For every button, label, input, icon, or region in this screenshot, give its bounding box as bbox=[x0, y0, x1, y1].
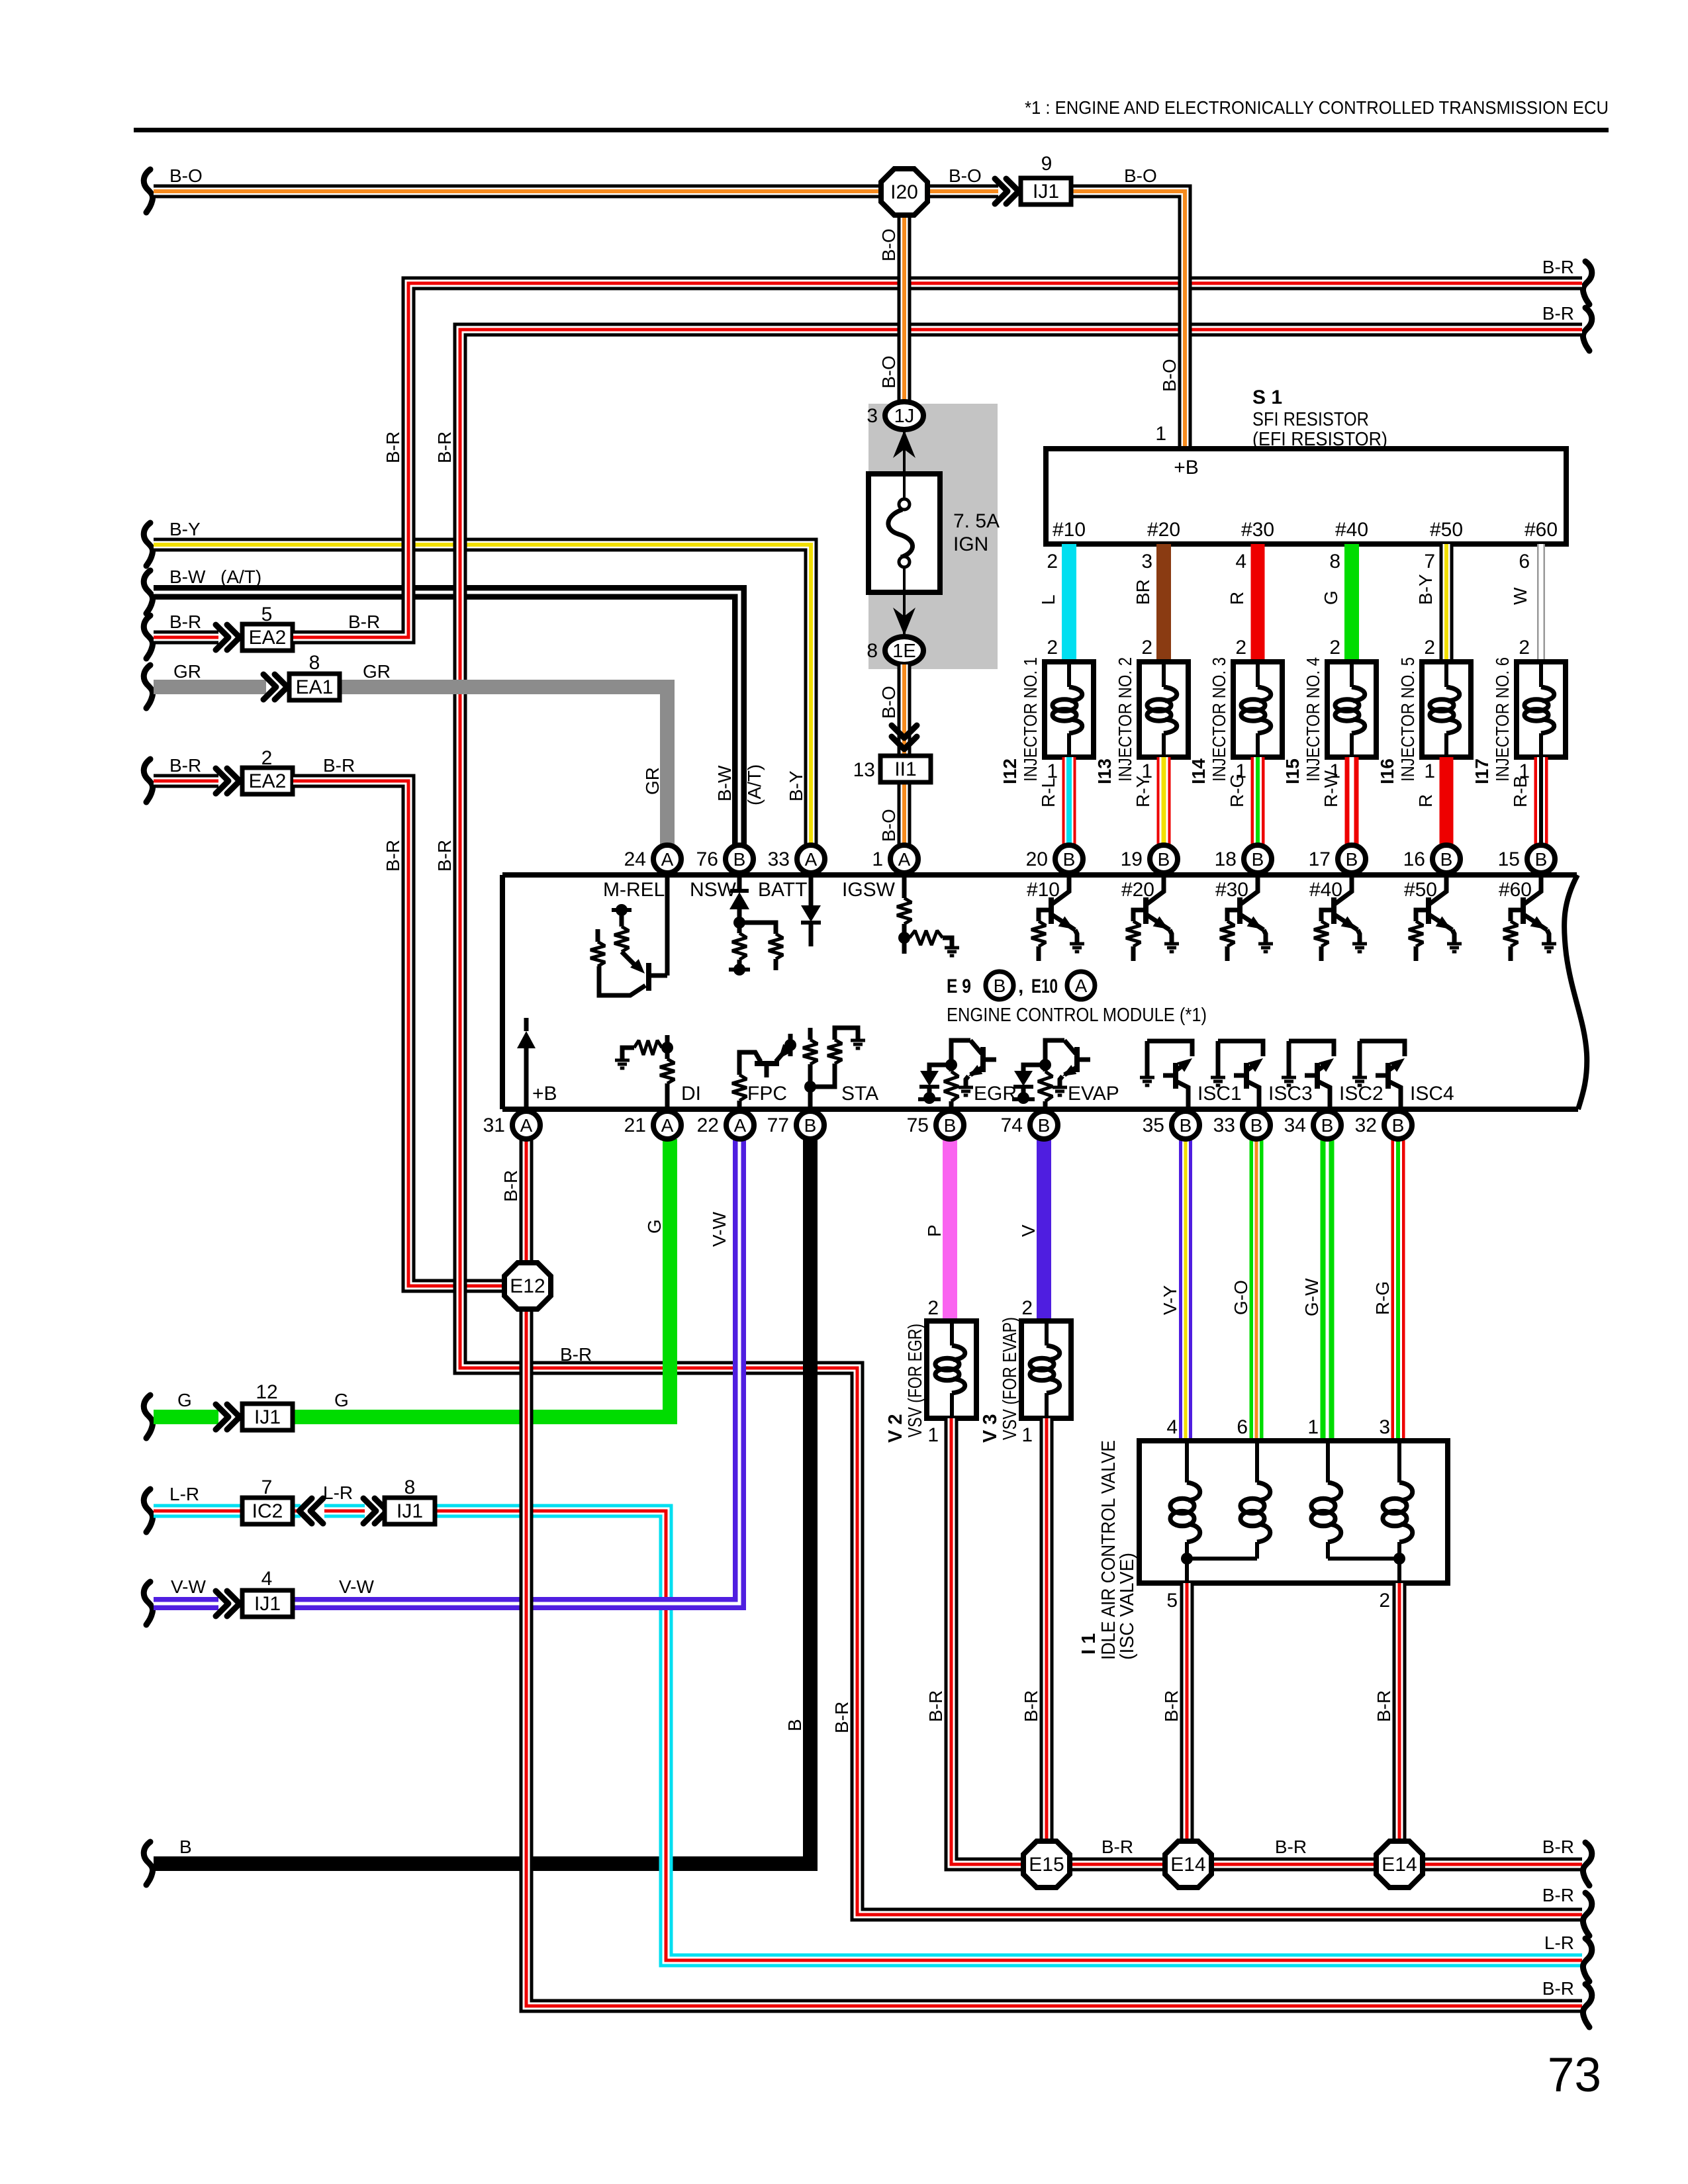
svg-text:73: 73 bbox=[1548, 2048, 1601, 2102]
injector I14 INJECTOR NO. 3 bbox=[1233, 662, 1282, 757]
svg-text:#30: #30 bbox=[1215, 879, 1248, 901]
svg-text:B: B bbox=[994, 976, 1006, 996]
svg-text:B-R: B-R bbox=[560, 1344, 592, 1365]
svg-text:*1 : ENGINE AND ELECTRONICALL: *1 : ENGINE AND ELECTRONICALLY CONTROLLE… bbox=[1025, 97, 1609, 118]
svg-text:33: 33 bbox=[1213, 1115, 1235, 1136]
svg-text:B: B bbox=[1440, 849, 1453, 870]
svg-text:R-B: R-B bbox=[1510, 776, 1530, 807]
wire B-Y from resistor #50 to injector no.5 bbox=[1440, 544, 1454, 664]
ECM pin 33 (A) top row bbox=[797, 845, 825, 873]
ECM pin 21 (A) bottom row bbox=[653, 1111, 681, 1139]
svg-text:B-R: B-R bbox=[831, 1702, 852, 1733]
wire B-O from left to I20 bbox=[144, 169, 152, 212]
svg-text:A: A bbox=[898, 849, 911, 870]
svg-text:B-O: B-O bbox=[878, 228, 899, 261]
svg-text:IJ1: IJ1 bbox=[1033, 181, 1059, 203]
svg-text:EA2: EA2 bbox=[249, 627, 287, 649]
ECM pin 15 (B) top row bbox=[1527, 845, 1555, 873]
svg-text:B-R: B-R bbox=[383, 840, 403, 872]
svg-text:V-W: V-W bbox=[171, 1576, 206, 1597]
svg-text:L-R: L-R bbox=[323, 1482, 353, 1503]
connector EA2 bbox=[242, 624, 293, 651]
svg-text:4: 4 bbox=[1235, 551, 1246, 572]
svg-text:B-R: B-R bbox=[1161, 1690, 1182, 1722]
ECM pin 24 (A) top row bbox=[653, 845, 681, 873]
svg-text:I16: I16 bbox=[1377, 758, 1397, 784]
connector EA1 bbox=[289, 674, 340, 700]
svg-text:#50: #50 bbox=[1404, 879, 1437, 901]
svg-text:BATT: BATT bbox=[758, 879, 807, 901]
svg-text:INJECTOR NO. 5: INJECTOR NO. 5 bbox=[1397, 657, 1418, 782]
svg-text:17: 17 bbox=[1309, 848, 1331, 870]
wire B-R E14 to right bbox=[1399, 1858, 1582, 1872]
svg-text:R-G: R-G bbox=[1227, 774, 1247, 807]
svg-text:2: 2 bbox=[1021, 1297, 1033, 1319]
svg-text:2: 2 bbox=[1047, 637, 1058, 659]
svg-text:B-O: B-O bbox=[1124, 165, 1157, 186]
svg-text:1: 1 bbox=[1424, 760, 1435, 782]
svg-text:7: 7 bbox=[261, 1477, 273, 1498]
svg-text:EA2: EA2 bbox=[249, 770, 287, 792]
svg-text:19: 19 bbox=[1121, 848, 1143, 870]
svg-text:20: 20 bbox=[1026, 848, 1048, 870]
connector IJ1 pin 4 bbox=[242, 1590, 293, 1617]
svg-text:A: A bbox=[734, 1115, 747, 1136]
connector IJ1 pin 12 bbox=[242, 1404, 293, 1430]
svg-text:#50: #50 bbox=[1430, 519, 1463, 541]
svg-text:B-R: B-R bbox=[169, 612, 201, 632]
svg-text:76: 76 bbox=[696, 848, 718, 870]
svg-text:7: 7 bbox=[1424, 551, 1435, 572]
svg-text:35: 35 bbox=[1143, 1115, 1164, 1136]
svg-text:B-W: B-W bbox=[714, 765, 735, 801]
injector I16 INJECTOR NO. 5 bbox=[1422, 662, 1471, 757]
svg-text:R-Y: R-Y bbox=[1133, 775, 1153, 807]
wire R-L injector 1 to ECM bbox=[1062, 757, 1076, 847]
wire G-O pin 33 to ISC bbox=[1250, 1139, 1264, 1443]
svg-text:I17: I17 bbox=[1472, 758, 1492, 784]
svg-text:#30: #30 bbox=[1241, 519, 1274, 541]
connector EA2 (2) bbox=[242, 768, 293, 794]
ground bbox=[959, 1086, 973, 1089]
svg-text:B-R: B-R bbox=[1542, 1978, 1574, 1999]
ECM pin 17 (B) top row bbox=[1338, 845, 1366, 873]
wire V-Y pin 35 to ISC bbox=[1179, 1139, 1192, 1443]
svg-text:G-W: G-W bbox=[1301, 1278, 1322, 1316]
svg-text:15: 15 bbox=[1498, 848, 1520, 870]
svg-text:,: , bbox=[1018, 976, 1023, 997]
I1 idle air control valve box bbox=[1139, 1441, 1448, 1583]
svg-text:W: W bbox=[1510, 587, 1530, 605]
ground bbox=[1352, 1076, 1367, 1079]
svg-text:B-O: B-O bbox=[878, 355, 899, 388]
svg-text:B-R: B-R bbox=[925, 1690, 946, 1722]
connector E12 bbox=[504, 1263, 551, 1309]
svg-text:B: B bbox=[784, 1719, 805, 1731]
svg-text:1: 1 bbox=[927, 1424, 939, 1446]
svg-text:V-Y: V-Y bbox=[1160, 1285, 1180, 1315]
svg-text:(A/T): (A/T) bbox=[220, 567, 261, 587]
ISC3 driver bbox=[1218, 1041, 1263, 1056]
svg-text:B: B bbox=[1535, 849, 1548, 870]
svg-text:B-R: B-R bbox=[1021, 1690, 1041, 1722]
svg-text:I15: I15 bbox=[1282, 758, 1303, 784]
svg-text:B: B bbox=[1392, 1115, 1405, 1136]
svg-text:B: B bbox=[804, 1115, 817, 1136]
svg-text:E14: E14 bbox=[1170, 1854, 1205, 1876]
wire V-W row bbox=[144, 1582, 152, 1625]
svg-text:B-R: B-R bbox=[1542, 1885, 1574, 1905]
svg-text:II1: II1 bbox=[894, 758, 916, 780]
svg-text:33: 33 bbox=[768, 848, 790, 870]
wire B-R to EA2 (pin 2) row y=1180 bbox=[144, 759, 152, 802]
wire B-R ISC pin5 to E14 bbox=[1180, 1583, 1194, 1840]
svg-text:G: G bbox=[644, 1219, 665, 1234]
svg-text:#60: #60 bbox=[1499, 879, 1532, 901]
svg-text:B: B bbox=[1180, 1115, 1192, 1136]
svg-text:INJECTOR NO. 2: INJECTOR NO. 2 bbox=[1115, 657, 1135, 782]
injector I17 INJECTOR NO. 6 bbox=[1517, 662, 1566, 757]
svg-text:3: 3 bbox=[1379, 1416, 1390, 1438]
connector 1E pin 8 bbox=[885, 637, 923, 664]
svg-text:2: 2 bbox=[927, 1297, 939, 1319]
svg-text:IGSW: IGSW bbox=[842, 879, 896, 901]
svg-text:R-L: R-L bbox=[1038, 778, 1058, 807]
wire B black from pin 77 down-left to brace bbox=[144, 1842, 152, 1885]
ISC1 driver bbox=[1147, 1041, 1192, 1056]
svg-text:B-Y: B-Y bbox=[786, 770, 806, 801]
svg-text:6: 6 bbox=[1519, 551, 1530, 572]
chevron junction bbox=[995, 179, 1008, 204]
svg-text:V-W: V-W bbox=[709, 1212, 729, 1247]
wire L from resistor #10 to injector no.1 bbox=[1062, 544, 1076, 664]
connector I20 bbox=[881, 169, 927, 215]
wire B-R VSV EGR to E15 row bbox=[951, 1418, 1023, 1864]
ISC valve coil 1 bbox=[1185, 1443, 1189, 1482]
svg-text:E12: E12 bbox=[510, 1275, 545, 1297]
ISC valve coil 2 bbox=[1255, 1443, 1259, 1482]
svg-text:B-R: B-R bbox=[1102, 1837, 1133, 1857]
ground bbox=[1447, 942, 1462, 946]
svg-text:1J: 1J bbox=[894, 406, 915, 427]
svg-text:EGR: EGR bbox=[974, 1083, 1017, 1105]
svg-text:INJECTOR NO. 3: INJECTOR NO. 3 bbox=[1209, 657, 1229, 782]
wire R-G injector 3 to ECM bbox=[1251, 757, 1265, 847]
svg-text:32: 32 bbox=[1355, 1115, 1377, 1136]
svg-text:P: P bbox=[924, 1224, 945, 1237]
svg-text:A: A bbox=[1075, 976, 1088, 996]
svg-text:2: 2 bbox=[1329, 637, 1340, 659]
svg-text:B-O: B-O bbox=[1159, 359, 1180, 392]
connector 1J pin 3 bbox=[885, 402, 923, 430]
svg-text:#20: #20 bbox=[1121, 879, 1154, 901]
svg-text:V 3: V 3 bbox=[980, 1414, 1001, 1443]
svg-text:2: 2 bbox=[1424, 637, 1435, 659]
svg-text:3: 3 bbox=[1141, 551, 1152, 572]
wire R injector 5 to ECM bbox=[1440, 757, 1454, 847]
wire B-W left row y=895 bbox=[144, 570, 152, 614]
svg-text:INJECTOR NO. 1: INJECTOR NO. 1 bbox=[1020, 657, 1041, 782]
svg-text:B: B bbox=[1252, 849, 1264, 870]
svg-text:#20: #20 bbox=[1147, 519, 1180, 541]
svg-text:1E: 1E bbox=[892, 641, 915, 662]
svg-text:G-O: G-O bbox=[1231, 1280, 1251, 1315]
svg-text:4: 4 bbox=[1166, 1416, 1178, 1438]
svg-text:VSV (FOR EGR): VSV (FOR EGR) bbox=[905, 1324, 926, 1437]
SFI resistor box bbox=[1046, 449, 1566, 544]
svg-text:IGN: IGN bbox=[953, 533, 988, 555]
svg-text:G: G bbox=[334, 1390, 349, 1410]
ground bbox=[1164, 942, 1179, 946]
svg-text:IJ1: IJ1 bbox=[397, 1500, 423, 1522]
wire B-R E15 to E14 bbox=[1047, 1858, 1188, 1872]
svg-text:B-R: B-R bbox=[500, 1170, 521, 1202]
svg-text:E15: E15 bbox=[1029, 1854, 1064, 1876]
svg-text:B-O: B-O bbox=[949, 165, 982, 186]
svg-text:B-R: B-R bbox=[1542, 303, 1574, 324]
wire W from resistor #60 to injector no.6 bbox=[1537, 544, 1545, 664]
svg-text:B: B bbox=[179, 1837, 192, 1857]
svg-text:1: 1 bbox=[1021, 1424, 1033, 1446]
svg-text:INJECTOR NO. 4: INJECTOR NO. 4 bbox=[1303, 657, 1323, 782]
svg-text:1: 1 bbox=[1307, 1416, 1319, 1438]
svg-text:6: 6 bbox=[1237, 1416, 1248, 1438]
svg-text:B-W: B-W bbox=[169, 567, 206, 587]
wire R-Y injector 2 to ECM bbox=[1157, 757, 1171, 847]
svg-text:B-R: B-R bbox=[434, 432, 455, 463]
ISC valve coil 3 bbox=[1326, 1443, 1330, 1482]
svg-text:B-R: B-R bbox=[434, 840, 455, 872]
svg-text:16: 16 bbox=[1403, 848, 1425, 870]
ground bbox=[1140, 1076, 1154, 1079]
wire B-R ISC pin2 to E14 bbox=[1393, 1583, 1407, 1840]
svg-text:IJ1: IJ1 bbox=[254, 1406, 281, 1428]
svg-text:#10: #10 bbox=[1053, 519, 1086, 541]
connector E14 bbox=[1165, 1841, 1211, 1888]
svg-text:B: B bbox=[944, 1115, 957, 1136]
svg-text:A: A bbox=[661, 1115, 674, 1136]
svg-text:B-R: B-R bbox=[1275, 1837, 1307, 1857]
junction node ISC coils 3-4 bbox=[1393, 1553, 1405, 1565]
svg-text:GR: GR bbox=[363, 661, 391, 682]
svg-text:+B: +B bbox=[532, 1083, 557, 1105]
svg-text:#40: #40 bbox=[1309, 879, 1342, 901]
svg-text:A: A bbox=[805, 849, 818, 870]
svg-text:B-R: B-R bbox=[1542, 1837, 1574, 1857]
connector E15 bbox=[1023, 1841, 1070, 1888]
ISC2 driver bbox=[1289, 1041, 1334, 1056]
svg-text:EA1: EA1 bbox=[296, 676, 334, 698]
svg-text:G: G bbox=[1321, 590, 1341, 605]
svg-text:I 1: I 1 bbox=[1078, 1633, 1100, 1655]
svg-text:31: 31 bbox=[483, 1115, 505, 1136]
svg-text:B: B bbox=[1321, 1115, 1334, 1136]
svg-text:#40: #40 bbox=[1335, 519, 1368, 541]
svg-text:B: B bbox=[1158, 849, 1170, 870]
ECM pin 16 (B) top row bbox=[1432, 845, 1460, 873]
svg-text:R-G: R-G bbox=[1372, 1281, 1393, 1315]
ground (DI) bbox=[615, 1059, 630, 1062]
svg-text:V: V bbox=[1018, 1224, 1039, 1237]
svg-text:GR: GR bbox=[173, 661, 201, 682]
svg-text:8: 8 bbox=[1329, 551, 1340, 572]
svg-text:B-R: B-R bbox=[323, 755, 355, 776]
ISC4 driver bbox=[1360, 1041, 1405, 1056]
ECM pin 35 (B) bottom row bbox=[1172, 1111, 1199, 1139]
svg-text:BR: BR bbox=[1133, 579, 1153, 605]
svg-text:2: 2 bbox=[1519, 637, 1530, 659]
ECM pin 75 (B) bottom row bbox=[936, 1111, 964, 1139]
ECM pin 20 (B) top row bbox=[1055, 845, 1083, 873]
ECM pin 1 (A) top row bbox=[890, 845, 918, 873]
svg-text:2: 2 bbox=[1047, 551, 1058, 572]
wire G from resistor #40 to injector no.4 bbox=[1344, 544, 1359, 664]
injector I13 INJECTOR NO. 2 bbox=[1139, 662, 1188, 757]
ISC valve coil 4 bbox=[1397, 1443, 1401, 1482]
svg-text:A: A bbox=[520, 1115, 533, 1136]
ECM pin 34 (B) bottom row bbox=[1313, 1111, 1341, 1139]
svg-text:E14: E14 bbox=[1382, 1854, 1417, 1876]
wire B-R to EA2 (pin 5) row y=963 bbox=[144, 615, 152, 659]
wire B-R pin31 through E12 to bottom right bbox=[526, 1139, 1582, 2006]
svg-text:DI: DI bbox=[681, 1083, 701, 1105]
svg-text:4: 4 bbox=[261, 1568, 273, 1590]
svg-text:12: 12 bbox=[256, 1381, 277, 1403]
svg-text:ISC4: ISC4 bbox=[1410, 1083, 1454, 1105]
ECM pin 19 (B) top row bbox=[1150, 845, 1178, 873]
svg-text:+B: +B bbox=[1174, 457, 1199, 478]
svg-text:L-R: L-R bbox=[169, 1484, 199, 1504]
ground bbox=[1070, 942, 1084, 946]
wire P pin 75 to VSV EGR bbox=[943, 1139, 957, 1324]
wire B-O vertical I20 to 1J bbox=[898, 215, 912, 404]
svg-text:8: 8 bbox=[309, 652, 320, 674]
ECM pin 76 (B) top row bbox=[726, 845, 753, 873]
svg-text:2: 2 bbox=[1235, 637, 1246, 659]
svg-text:IJ1: IJ1 bbox=[254, 1593, 281, 1615]
svg-text:I12: I12 bbox=[1000, 758, 1020, 784]
connector IJ1 pin 8 bbox=[385, 1498, 435, 1524]
svg-text:B-R: B-R bbox=[169, 755, 201, 776]
svg-text:B-R: B-R bbox=[1374, 1690, 1394, 1722]
injector I15 INJECTOR NO. 4 bbox=[1327, 662, 1376, 757]
svg-text:G: G bbox=[177, 1390, 192, 1410]
svg-text:R: R bbox=[1227, 592, 1247, 605]
wire B-O 1E to ECM pin 1 bbox=[898, 664, 912, 847]
svg-text:GR: GR bbox=[642, 767, 663, 795]
svg-text:74: 74 bbox=[1001, 1115, 1023, 1136]
wire B-R VSV EVAP to E15 bbox=[1040, 1418, 1054, 1840]
svg-text:I20: I20 bbox=[890, 181, 918, 203]
svg-text:B-R: B-R bbox=[348, 612, 380, 632]
svg-text:B-O: B-O bbox=[878, 809, 899, 842]
svg-text:#10: #10 bbox=[1027, 879, 1060, 901]
ECM pin 31 (A) bottom row bbox=[512, 1111, 540, 1139]
svg-text:21: 21 bbox=[624, 1115, 646, 1136]
wire R from resistor #30 to injector no.3 bbox=[1251, 544, 1265, 664]
ground bbox=[1352, 942, 1367, 946]
wire B-R vertical route 1: top right brace down to E12 bbox=[293, 283, 1582, 637]
svg-text:A: A bbox=[661, 849, 674, 870]
svg-text:ENGINE CONTROL MODULE (*1): ENGINE CONTROL MODULE (*1) bbox=[947, 1005, 1207, 1026]
svg-text:SFI RESISTOR: SFI RESISTOR bbox=[1252, 409, 1369, 430]
wire GR row y=1038 bbox=[144, 665, 152, 708]
gray panel bbox=[868, 404, 998, 669]
fuse 7.5A IGN bbox=[903, 430, 906, 474]
connector IC2 pin 7 bbox=[242, 1498, 293, 1524]
ECM pin 74 (B) bottom row bbox=[1030, 1111, 1058, 1139]
svg-text:(A/T): (A/T) bbox=[744, 764, 765, 805]
svg-text:E10: E10 bbox=[1031, 976, 1058, 997]
svg-text:B-R: B-R bbox=[383, 432, 403, 463]
svg-text:B-O: B-O bbox=[169, 165, 203, 186]
ground bbox=[1053, 1086, 1067, 1089]
svg-text:B-R: B-R bbox=[1542, 257, 1574, 277]
wire R-B injector 6 to ECM bbox=[1534, 757, 1548, 847]
wire BR from resistor #20 to injector no.2 bbox=[1156, 544, 1171, 664]
svg-text:M-REL: M-REL bbox=[603, 879, 665, 901]
svg-text:L-R: L-R bbox=[1544, 1933, 1574, 1953]
wire B-R E14 to E14 bbox=[1188, 1858, 1399, 1872]
svg-text:VSV (FOR EVAP): VSV (FOR EVAP) bbox=[1000, 1317, 1021, 1440]
wire R-W injector 4 to ECM bbox=[1345, 757, 1359, 847]
svg-text:NSW: NSW bbox=[690, 879, 737, 901]
svg-text:#60: #60 bbox=[1524, 519, 1558, 541]
svg-text:2: 2 bbox=[1379, 1590, 1390, 1612]
svg-text:13: 13 bbox=[853, 759, 875, 781]
svg-text:77: 77 bbox=[767, 1115, 789, 1136]
ground bbox=[1542, 942, 1556, 946]
svg-text:S 1: S 1 bbox=[1252, 387, 1282, 408]
ECM pin 33 (B) bottom row bbox=[1243, 1111, 1270, 1139]
svg-text:34: 34 bbox=[1284, 1115, 1306, 1136]
svg-text:9: 9 bbox=[1041, 153, 1053, 175]
svg-text:L: L bbox=[1038, 594, 1058, 605]
svg-text:V-W: V-W bbox=[339, 1576, 374, 1597]
svg-text:I13: I13 bbox=[1094, 758, 1115, 784]
svg-text:2: 2 bbox=[1141, 637, 1152, 659]
svg-text:FPC: FPC bbox=[747, 1083, 787, 1105]
top rule bbox=[134, 128, 1609, 132]
ECM pin 32 (B) bottom row bbox=[1384, 1111, 1412, 1139]
connector E14 (2) bbox=[1376, 1841, 1423, 1888]
ground bbox=[1258, 942, 1273, 946]
svg-text:I14: I14 bbox=[1188, 758, 1209, 784]
wire L-R row bbox=[144, 1489, 152, 1532]
ground (STA) bbox=[851, 1039, 865, 1042]
ECM (engine control module) box bbox=[502, 872, 1577, 878]
svg-text:8: 8 bbox=[867, 640, 878, 662]
ECM pin 22 (A) bottom row bbox=[726, 1111, 754, 1139]
ground bbox=[1211, 1076, 1225, 1079]
ECM pin 77 (B) bottom row bbox=[796, 1111, 824, 1139]
svg-text:75: 75 bbox=[907, 1115, 929, 1136]
junction node ISC coils 1-2 bbox=[1181, 1553, 1193, 1565]
svg-text:1: 1 bbox=[1155, 423, 1166, 445]
wire G-W pin 34 to ISC bbox=[1321, 1139, 1335, 1443]
svg-text:R-W: R-W bbox=[1321, 770, 1341, 807]
svg-text:B-O: B-O bbox=[878, 686, 899, 719]
svg-text:V 2: V 2 bbox=[885, 1414, 906, 1443]
ground (IGSW) bbox=[945, 946, 959, 950]
svg-text:B-Y: B-Y bbox=[169, 519, 201, 539]
svg-text:E 9: E 9 bbox=[947, 976, 971, 997]
svg-text:B-Y: B-Y bbox=[1415, 574, 1436, 605]
svg-text:1: 1 bbox=[872, 848, 883, 870]
svg-text:B: B bbox=[1038, 1115, 1051, 1136]
svg-text:STA: STA bbox=[841, 1083, 878, 1105]
ECM pin 18 (B) top row bbox=[1244, 845, 1272, 873]
